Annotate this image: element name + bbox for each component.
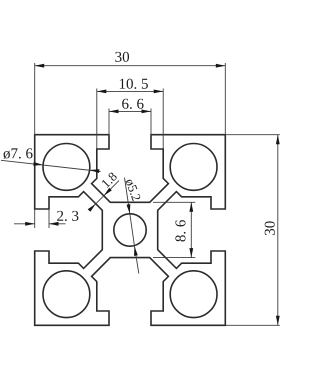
svg-text:30: 30 xyxy=(115,50,130,66)
svg-text:ø7. 6: ø7. 6 xyxy=(3,146,34,162)
svg-text:2. 3: 2. 3 xyxy=(56,209,79,225)
svg-text:10. 5: 10. 5 xyxy=(119,77,149,93)
svg-text:6. 6: 6. 6 xyxy=(122,97,145,113)
svg-text:8. 6: 8. 6 xyxy=(173,219,189,242)
svg-text:30: 30 xyxy=(263,221,279,236)
